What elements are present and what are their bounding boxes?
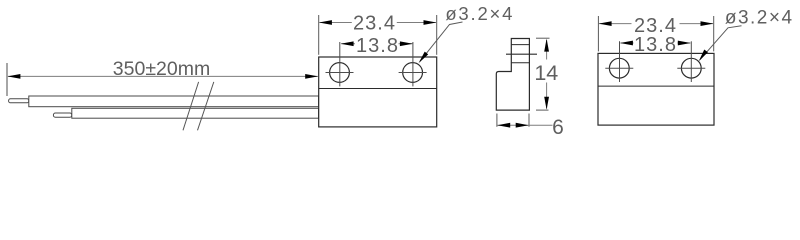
side view terminal line 2 wide <box>506 53 537 55</box>
view3 dimension 13.8 line <box>621 42 691 44</box>
view3 dimension 23.4 line <box>599 23 713 25</box>
dimension 6 extension right <box>528 114 530 127</box>
svg-text:23.4: 23.4 <box>353 12 396 34</box>
view1 hole right crosshair vertical / 13.8 extension <box>412 42 414 86</box>
svg-text:6: 6 <box>552 116 564 139</box>
view3 hole left crosshair vertical / 13.8 extension <box>619 41 621 82</box>
view3 hole callout leader <box>700 26 742 60</box>
dimension 14 line <box>546 40 548 109</box>
view3 dimension 13.8 arrow right <box>678 41 691 46</box>
svg-text:350±20mm: 350±20mm <box>113 58 210 80</box>
view1 dimension 23.4 extension left <box>318 15 320 55</box>
dimension 6 extension left <box>496 114 498 127</box>
svg-text:13.8: 13.8 <box>356 35 399 57</box>
wire lower insulation <box>72 108 319 118</box>
view1 hole callout leader <box>420 22 463 62</box>
view3 dimension 13.8 arrow left <box>620 41 633 46</box>
view3 hole left circle <box>609 58 629 78</box>
view3 hole right circle <box>681 58 701 78</box>
view1 dimension 13.8 arrow right <box>400 41 413 46</box>
view1 hole left circle <box>330 63 350 83</box>
dimension 14 arrow up <box>544 39 549 52</box>
view1 dimension 23.4 arrow right <box>424 20 437 25</box>
wire lower conductor tip <box>53 113 71 117</box>
dimension 6 arrow right <box>516 123 529 128</box>
dimension 14 extension bottom <box>536 109 549 111</box>
view3 hole left crosshair horizontal <box>605 67 633 69</box>
dimension 350±20mm arrow left <box>7 74 20 79</box>
dimension 14 extension top <box>536 37 550 39</box>
wire upper insulation <box>29 96 319 107</box>
dimension 6 arrow left <box>497 123 510 128</box>
svg-text:ø3.2×4: ø3.2×4 <box>725 7 794 28</box>
view3 hole right crosshair horizontal <box>677 67 705 69</box>
view3 hole callout arrow <box>699 50 708 62</box>
view3 dimension 23.4 arrow right <box>701 21 714 26</box>
view1 hole right circle <box>403 63 423 83</box>
view1 dimension 23.4 extension right <box>436 15 438 55</box>
view1 hole callout arrow <box>419 52 429 64</box>
view1 hole right crosshair horizontal <box>399 72 427 74</box>
view1 dimension 13.8 line <box>341 43 412 45</box>
view3 dimension 23.4 extension left <box>597 16 599 51</box>
wire break mark 2 <box>198 82 214 130</box>
dimension 6 line <box>497 124 552 126</box>
view1 dimension 13.8 arrow left <box>341 41 354 46</box>
svg-text:13.8: 13.8 <box>634 34 677 56</box>
view1 dimension 23.4 arrow left <box>319 20 332 25</box>
view3 dimension 23.4 extension right <box>713 16 715 51</box>
view3 dimension 23.4 arrow left <box>599 21 612 26</box>
side view terminal line 1 <box>511 44 529 46</box>
view1 body outline <box>319 57 437 127</box>
dimension 350±20mm arrow right <box>305 74 318 79</box>
side view body outline <box>496 39 529 111</box>
dimension 350±20mm extension line left <box>6 63 8 96</box>
svg-text:14: 14 <box>534 61 558 85</box>
view1 hole left crosshair horizontal <box>326 72 354 74</box>
view3 hole right crosshair vertical / 13.8 extension <box>690 41 692 82</box>
view1 hole left crosshair vertical / 13.8 extension <box>339 42 341 86</box>
svg-text:ø3.2×4: ø3.2×4 <box>445 3 514 24</box>
wire break mark 1 <box>183 82 199 130</box>
view3 body outline <box>598 53 714 125</box>
dimension 350±20mm line <box>8 75 318 77</box>
wire upper conductor tip <box>9 99 29 103</box>
view3 body separation line <box>598 85 714 87</box>
side view terminal line 3 <box>511 62 530 64</box>
dimension 14 arrow down <box>544 97 549 110</box>
view1 body separation line <box>319 88 437 90</box>
view1 dimension 23.4 line <box>320 22 436 24</box>
